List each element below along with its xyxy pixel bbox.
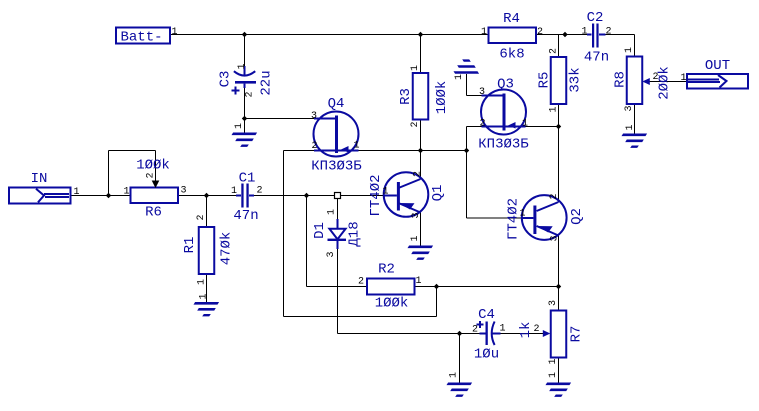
capacitor C1 47n body <box>241 184 243 208</box>
port OUT body <box>687 74 748 89</box>
svg-text:1: 1 <box>415 276 421 287</box>
svg-text:R2: R2 <box>378 262 395 278</box>
wire to Q3 gate <box>467 95 482 97</box>
svg-text:1: 1 <box>73 187 79 198</box>
svg-text:3: 3 <box>326 251 337 257</box>
wire R7 to ground <box>558 358 560 383</box>
svg-text:R1: R1 <box>182 237 198 254</box>
resistor R2 100k <box>358 262 422 312</box>
svg-text:R8: R8 <box>613 71 629 88</box>
svg-text:1: 1 <box>197 279 208 285</box>
svg-text:1: 1 <box>522 119 528 130</box>
junction at R3 rail <box>418 32 423 37</box>
transistor Q1 ГТ402 PNP body <box>384 172 429 217</box>
ground under R7 <box>546 372 572 397</box>
resistor R3 100k body <box>413 73 429 120</box>
wire square to D1 <box>337 199 339 221</box>
wire IN to R6 <box>71 195 131 197</box>
svg-text:OUT: OUT <box>705 58 730 74</box>
svg-text:R7: R7 <box>569 326 585 343</box>
svg-text:IN: IN <box>31 171 48 187</box>
svg-text:1: 1 <box>548 372 559 378</box>
svg-text:2: 2 <box>652 72 658 83</box>
ground under C3 body <box>232 133 258 136</box>
svg-text:1: 1 <box>382 187 388 198</box>
junction at R5 rail <box>562 32 567 37</box>
wire R2 pin1 to Q2 emitter node <box>415 286 559 288</box>
resistor R1 470k body <box>199 227 215 274</box>
wire D1 node to C4 <box>338 333 481 335</box>
junction at R3 bottom <box>418 148 423 153</box>
wire R6 wiper drop <box>155 151 157 182</box>
svg-text:2: 2 <box>537 27 543 38</box>
wire C2 node to R8 <box>634 35 636 57</box>
svg-text:1: 1 <box>199 293 210 299</box>
svg-text:33k: 33k <box>568 67 584 92</box>
svg-text:1: 1 <box>680 73 686 84</box>
wire Q3 source to R5 node <box>526 126 559 128</box>
svg-text:2: 2 <box>358 277 364 288</box>
wire R8 to ground <box>634 104 636 134</box>
port Batt- body <box>116 28 170 44</box>
wire Q3 source left <box>467 126 482 128</box>
node square marker <box>335 193 341 199</box>
svg-text:D1: D1 <box>312 222 328 239</box>
port IN body <box>9 188 71 204</box>
potentiometer R8 200k body <box>627 57 643 105</box>
junction at C4 ground node <box>457 331 462 336</box>
transistor Q4 КП303Б JFET <box>311 96 362 175</box>
svg-text:C4: C4 <box>478 307 495 323</box>
diode D1 Д18 body <box>329 229 345 239</box>
svg-text:2: 2 <box>196 214 207 220</box>
potentiometer R8 200k <box>613 47 673 112</box>
potentiometer R6 100k <box>123 158 186 221</box>
transistor Q3 КП303Б JFET body <box>481 90 526 135</box>
svg-text:Q4: Q4 <box>328 96 345 112</box>
svg-text:1: 1 <box>581 27 587 38</box>
svg-text:R4: R4 <box>503 11 520 27</box>
svg-text:2: 2 <box>472 325 478 336</box>
wire R6 loop up <box>108 151 110 196</box>
wire rail to R5 <box>558 35 560 58</box>
svg-text:6k8: 6k8 <box>499 47 524 63</box>
ground under R7 body <box>546 383 572 386</box>
resistor R1 470k <box>182 214 235 285</box>
transistor Q1 ГТ402 PNP <box>368 171 446 219</box>
wire rail to C3 <box>244 35 246 68</box>
svg-text:1: 1 <box>549 106 560 112</box>
resistor R3 100k <box>398 65 450 128</box>
transistor Q2 ГТ402 PNP body <box>522 195 567 240</box>
svg-text:2: 2 <box>311 141 317 152</box>
svg-text:Д18: Д18 <box>347 221 363 246</box>
wire input node down <box>306 196 308 287</box>
svg-text:R5: R5 <box>537 72 553 89</box>
capacitor C4 10u polarized body <box>486 322 488 346</box>
ground under Q1 body <box>408 246 434 249</box>
svg-text:1: 1 <box>481 27 487 38</box>
junction at R6 loop <box>106 193 111 198</box>
ground under R1 body <box>194 302 220 305</box>
ground under R8 <box>622 124 648 147</box>
svg-text:Batt-: Batt- <box>120 30 162 46</box>
wire Batt- rail top <box>170 34 489 36</box>
svg-text:C2: C2 <box>587 10 604 26</box>
svg-text:Q1: Q1 <box>430 185 446 202</box>
ground under Q1 <box>408 235 434 259</box>
potentiometer R7 1k body <box>551 311 567 358</box>
svg-text:Q2: Q2 <box>569 208 585 225</box>
wire R6 to C1 <box>178 195 237 197</box>
svg-text:1ØØk: 1ØØk <box>375 296 409 312</box>
capacitor C4 10u polarized <box>472 307 506 363</box>
resistor R5 33k body <box>551 57 567 104</box>
svg-text:1: 1 <box>353 141 359 152</box>
junction at Q2 emitter node <box>556 284 561 289</box>
svg-text:22u: 22u <box>259 70 275 95</box>
wire C3 to ground node <box>244 87 246 133</box>
svg-text:1Øu: 1Øu <box>474 347 499 363</box>
svg-text:2: 2 <box>146 172 157 178</box>
diode D1 Д18 <box>312 209 363 258</box>
capacitor C3 22u polarized body <box>234 71 255 75</box>
wire Q4 source rail left <box>284 150 315 152</box>
svg-text:1: 1 <box>237 63 248 69</box>
svg-text:3: 3 <box>180 186 186 197</box>
svg-text:R3: R3 <box>398 88 414 105</box>
wire node to R1 <box>206 196 208 228</box>
wire node to Q4 gate <box>245 118 315 120</box>
wire feedback up to R2 node <box>436 287 438 317</box>
svg-text:1: 1 <box>449 372 460 378</box>
wire R8 wiper to OUT <box>649 81 687 83</box>
wire Q1 emitter to ground <box>420 213 422 246</box>
wire C2 to R8 column <box>605 34 635 36</box>
junction at R5 bottom <box>556 124 561 129</box>
wire D1 to bottom node <box>337 249 339 334</box>
svg-text:Q3: Q3 <box>497 77 514 93</box>
svg-text:1k: 1k <box>518 322 534 339</box>
junction at C3 rail <box>242 32 247 37</box>
wire R1 to ground <box>206 274 208 302</box>
svg-text:1: 1 <box>410 65 421 71</box>
svg-text:КП3Ø3Б: КП3Ø3Б <box>311 159 362 175</box>
wire Q4 source rail right <box>359 150 467 152</box>
transistor Q3 КП303Б JFET <box>478 77 529 153</box>
svg-text:2: 2 <box>256 186 262 197</box>
wire C4 to R7 wiper <box>500 333 544 335</box>
port OUT <box>680 58 748 89</box>
ground under C3 <box>232 123 258 147</box>
svg-text:1: 1 <box>454 74 465 80</box>
svg-text:2: 2 <box>479 119 485 130</box>
junction at C3 bottom <box>242 116 247 121</box>
svg-text:R6: R6 <box>145 205 162 221</box>
port IN <box>9 171 80 204</box>
capacitor C2 47n <box>581 10 611 66</box>
ground above Q3 inverted <box>454 59 480 80</box>
potentiometer R7 1k <box>518 300 585 365</box>
junction at R1 top <box>204 193 209 198</box>
capacitor C2 47n body <box>592 24 594 48</box>
svg-text:2: 2 <box>533 324 539 335</box>
wire feedback bottom horizontal <box>284 316 437 318</box>
ground above Q3 inverted body <box>454 71 480 74</box>
svg-text:1: 1 <box>234 123 245 129</box>
svg-text:1ØØk: 1ØØk <box>136 158 170 174</box>
svg-text:47n: 47n <box>233 208 258 224</box>
svg-text:1: 1 <box>171 27 177 38</box>
svg-text:2: 2 <box>605 27 611 38</box>
ground under C4 node <box>447 372 473 397</box>
svg-text:3: 3 <box>479 87 485 98</box>
svg-text:2: 2 <box>410 121 421 127</box>
ground under R1 <box>194 293 220 316</box>
ground under C4 node body <box>447 383 473 386</box>
port Batt- <box>116 27 178 46</box>
svg-text:3: 3 <box>548 300 559 306</box>
capacitor C3 22u polarized <box>218 63 275 97</box>
svg-text:1: 1 <box>624 47 635 53</box>
svg-text:1: 1 <box>410 235 421 241</box>
resistor R2 100k body <box>367 279 415 295</box>
wire feedback left vertical <box>283 151 285 317</box>
wire R3 to node <box>420 120 422 151</box>
svg-text:47Øk: 47Øk <box>219 232 235 266</box>
wire C1 to Q1 base <box>254 195 385 197</box>
svg-text:1: 1 <box>499 324 505 335</box>
svg-text:2: 2 <box>413 171 424 177</box>
svg-text:C1: C1 <box>239 171 256 187</box>
svg-text:1: 1 <box>548 358 559 364</box>
svg-text:1: 1 <box>327 209 338 215</box>
svg-text:2: 2 <box>549 48 560 54</box>
svg-text:47n: 47n <box>584 50 609 66</box>
svg-text:3: 3 <box>311 111 317 122</box>
svg-text:3: 3 <box>411 212 422 218</box>
svg-text:1: 1 <box>231 186 237 197</box>
svg-text:3: 3 <box>624 105 635 111</box>
svg-text:2ØØk: 2ØØk <box>657 66 673 100</box>
junction at Q2 base column <box>464 148 469 153</box>
svg-text:1: 1 <box>123 187 129 198</box>
wire Q3 to Q2 base vertical <box>466 127 468 219</box>
ground under R8 body <box>622 134 648 137</box>
wire R5 to Q2 collector <box>558 104 560 202</box>
svg-text:C3: C3 <box>218 71 234 88</box>
wire rail to R3 <box>420 35 422 74</box>
wire C4 node to ground <box>459 334 461 383</box>
resistor R5 33k <box>537 48 584 113</box>
transistor Q2 ГТ402 PNP <box>506 193 586 241</box>
resistor R4 6k8 <box>481 11 543 63</box>
wire node to Q1 collector <box>420 151 422 180</box>
svg-text:3: 3 <box>549 235 560 241</box>
capacitor C1 47n <box>231 171 263 225</box>
resistor R4 6k8 body <box>489 28 537 44</box>
junction at R2 pin1 <box>434 284 439 289</box>
wire to Q2 base <box>467 217 523 219</box>
wire R4 to C2 <box>536 34 588 36</box>
wire node to R2 pin2 <box>307 286 368 288</box>
wire Q2 emitter down <box>558 236 560 311</box>
potentiometer R6 100k body <box>131 188 179 204</box>
svg-text:КП3Ø3Б: КП3Ø3Б <box>478 137 529 153</box>
transistor Q4 КП303Б JFET body <box>314 112 359 157</box>
wire Q3 top ground drop <box>466 74 468 96</box>
svg-text:2: 2 <box>245 91 256 97</box>
wire R6 loop top <box>109 150 156 152</box>
svg-text:1: 1 <box>625 124 636 130</box>
junction at D1 column <box>304 193 309 198</box>
svg-text:1: 1 <box>519 209 525 220</box>
svg-text:2: 2 <box>549 193 560 199</box>
svg-text:1ØØk: 1ØØk <box>434 81 450 115</box>
